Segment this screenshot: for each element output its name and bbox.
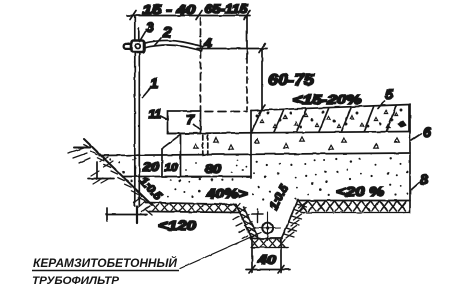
- dim 40 left extension: [251, 240, 253, 273]
- svg-text:<20 %: <20 %: [336, 184, 385, 199]
- svg-text:11: 11: [149, 107, 162, 121]
- layer 5/6 boundary: [168, 132, 411, 134]
- svg-text:65-115: 65-115: [205, 2, 248, 16]
- left step horizontal: [88, 178, 114, 180]
- tick mark left: [130, 11, 136, 20]
- leader to pipe filter: [180, 233, 261, 269]
- dimension 60-75 vertical: [261, 49, 263, 111]
- svg-text:<15-20%: <15-20%: [293, 92, 363, 107]
- extension line at standpipe: [134, 16, 136, 41]
- dim 40 ticks: [249, 266, 255, 274]
- hidden drop pipe dashed left: [202, 135, 204, 155]
- svg-text:20: 20: [142, 162, 160, 174]
- layer 5 aggregate marks: [256, 109, 404, 128]
- datum cross horizontal: [252, 213, 264, 215]
- trench bottom hatch band: [251, 240, 288, 248]
- outlet pipe 2 bottom line: [144, 45, 202, 51]
- pipe filter circle: [262, 223, 273, 234]
- left step vertical: [96, 162, 98, 179]
- right ground line: [297, 200, 410, 202]
- dim 40 line: [246, 269, 290, 271]
- tick mark right: [244, 11, 250, 20]
- leader 5: [378, 101, 385, 109]
- left step hatch: [91, 171, 110, 184]
- outlet box 7: [168, 111, 201, 134]
- compacted base band top: [146, 203, 236, 205]
- leader 1: [143, 89, 151, 98]
- left slope 1:0.5: [84, 139, 152, 205]
- trench right slope hatch: [284, 202, 307, 238]
- compacted base band zigzag: [152, 204, 240, 212]
- tick on level line: [259, 44, 265, 53]
- taper diagonal: [162, 135, 180, 149]
- svg-text:80: 80: [205, 164, 222, 176]
- standpipe top extension: [138, 28, 140, 41]
- trench left slope hatch: [230, 208, 258, 239]
- tick 10|80: [180, 135, 182, 176]
- outlet level line: [197, 48, 267, 50]
- hidden drop pipe dashed right: [207, 135, 209, 155]
- svg-text:2: 2: [162, 24, 172, 41]
- cap left hook: [124, 44, 131, 49]
- sand dim baseline: [123, 176, 251, 178]
- svg-text:6: 6: [423, 124, 431, 140]
- dim 40 right extension: [280, 240, 282, 273]
- leader 7: [194, 125, 201, 130]
- trench left slope band inner line: [244, 207, 258, 236]
- dimension line 15-40 / 65-115: [127, 15, 250, 17]
- outlet pipe 2 top line: [144, 41, 203, 47]
- pipe filter horizontal centerline: [255, 227, 281, 230]
- dim line 120: [106, 214, 147, 216]
- svg-text:10: 10: [165, 162, 179, 174]
- pipe filter center dot: [266, 226, 269, 229]
- svg-text:8: 8: [420, 171, 428, 187]
- svg-text:60-75: 60-75: [268, 72, 315, 89]
- trench bottom: [251, 238, 283, 240]
- compacted base band bottom: [149, 212, 240, 213]
- tick 20|10: [161, 149, 163, 177]
- standpipe 1 lower end: [136, 206, 138, 223]
- leader 2: [155, 38, 162, 46]
- leader 6: [412, 134, 422, 141]
- cap inner circle: [136, 44, 141, 49]
- layer 5 hatch: [252, 105, 410, 132]
- trench right slope: [282, 200, 299, 239]
- dashed box top: [205, 111, 247, 113]
- right ground hatch band: [299, 202, 409, 213]
- svg-text:15 - 40: 15 - 40: [143, 2, 197, 17]
- sand layer dots: [109, 157, 408, 200]
- svg-text:3: 3: [146, 19, 154, 35]
- right face edge: [409, 104, 411, 213]
- underline: [32, 270, 179, 272]
- left ground surface stub: [74, 147, 90, 149]
- standpipe 1 right wall: [138, 52, 140, 206]
- pipe filter vertical centerline: [267, 212, 269, 241]
- svg-text:40%>: 40%>: [205, 187, 248, 201]
- leader 3: [140, 32, 146, 42]
- cap body element 3: [132, 41, 145, 53]
- outlet pipe 2 end: [202, 47, 203, 51]
- layer 5 top edge: [251, 105, 410, 111]
- left ground hatch: [68, 145, 145, 201]
- svg-text:5: 5: [385, 86, 393, 102]
- svg-text:<120: <120: [158, 218, 197, 233]
- standpipe 1 left wall: [134, 52, 136, 206]
- svg-text:ТРУБОФИЛЬТР: ТРУБОФИЛЬТР: [32, 275, 120, 287]
- layer 6 bottom / sand top: [99, 153, 410, 156]
- svg-text:1: 1: [150, 75, 158, 91]
- leader 11: [161, 116, 168, 120]
- layer 6 gravel triangles: [194, 137, 400, 149]
- slope foot hatch: [134, 196, 152, 215]
- svg-text:КЕРАМЗИТОБЕТОННЫЙ: КЕРАМЗИТОБЕТОННЫЙ: [33, 257, 178, 270]
- layer left edge: [250, 111, 252, 179]
- datum cross vertical: [257, 209, 259, 223]
- scribble at layer 5 right end: [398, 121, 406, 127]
- dim 120 left tick: [106, 208, 108, 221]
- svg-text:1:0.5: 1:0.5: [268, 183, 291, 212]
- hatch near sand top left: [100, 157, 113, 167]
- tick mark middle: [196, 11, 202, 20]
- trench left slope: [236, 205, 252, 239]
- dashed node line 4: [200, 18, 202, 111]
- right extension line: [246, 16, 248, 58]
- svg-text:40: 40: [257, 252, 277, 267]
- leader 8: [412, 182, 421, 190]
